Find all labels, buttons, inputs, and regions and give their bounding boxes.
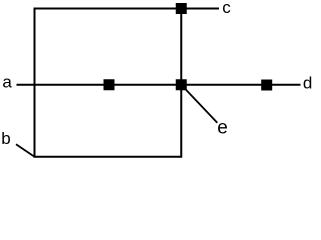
- svg-text:d: d: [303, 73, 312, 92]
- svg-text:c: c: [222, 0, 231, 17]
- svg-text:b: b: [1, 129, 10, 148]
- svg-text:a: a: [2, 73, 12, 92]
- svg-text:e: e: [217, 118, 228, 139]
